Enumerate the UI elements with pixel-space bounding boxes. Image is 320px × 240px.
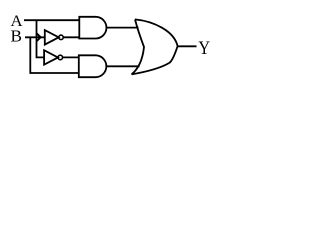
wire A branch down to inverter U2 input [37, 20, 45, 57]
OR gate U5 [132, 19, 178, 74]
wire B branch down to AND2 lower input [30, 37, 79, 73]
inverter U2 bubble [58, 55, 63, 60]
inverter U2 (NOT A) [44, 50, 58, 64]
svg-text:Y: Y [198, 38, 210, 59]
AND gate U3 (top) [79, 17, 106, 39]
wire A input [24, 19, 79, 21]
wire AND1 output to OR [107, 27, 139, 29]
inverter U1 bubble [59, 35, 64, 40]
svg-text:B: B [11, 26, 23, 45]
wire U1 output to AND1 [63, 36, 79, 38]
arrowhead on B wire into inverter U1 [36, 33, 40, 41]
AND gate U4 (bottom) [79, 55, 107, 77]
wire B input [25, 36, 45, 38]
inverter U1 (NOT B) [45, 30, 59, 44]
wire U2 output to AND2 [63, 56, 79, 58]
wire AND2 output to OR [106, 65, 139, 67]
wire OR output [178, 45, 197, 47]
